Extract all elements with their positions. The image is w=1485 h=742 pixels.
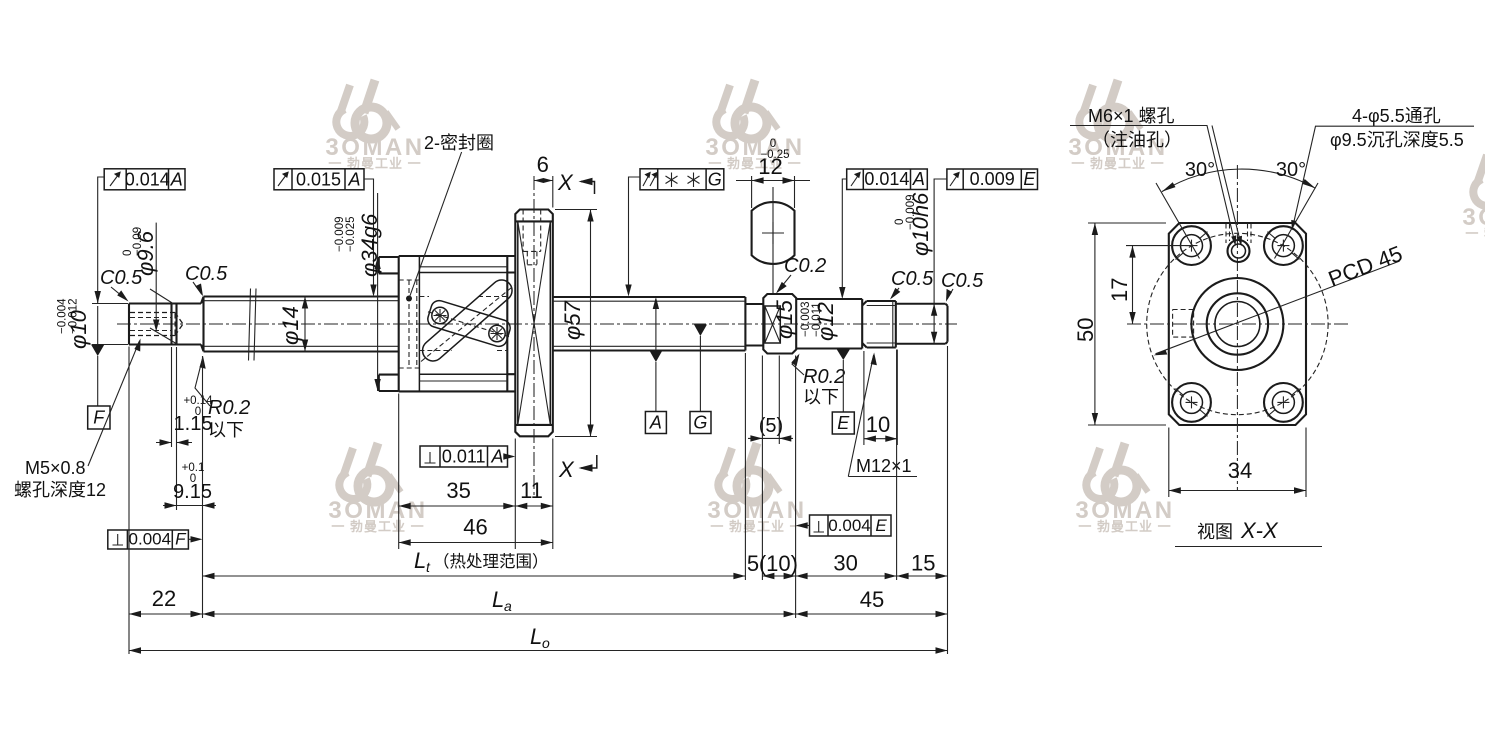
svg-text:50: 50 <box>1073 318 1098 342</box>
oval center cross <box>762 222 784 244</box>
(5) dimension upper <box>748 356 793 445</box>
nut body <box>399 256 516 391</box>
phi15 collar with wrench flats <box>763 294 796 354</box>
section mark X bottom <box>558 455 597 482</box>
flange section X cross <box>518 221 551 425</box>
svg-text:C0.2: C0.2 <box>784 255 826 277</box>
strip axis dashed <box>428 312 509 337</box>
15 dimension <box>897 551 948 580</box>
svg-text:−0.025: −0.025 <box>345 217 357 253</box>
svg-text:M12×1: M12×1 <box>856 456 912 476</box>
FCF5 runout 0.009 E <box>931 169 1038 344</box>
46 dimension <box>399 515 553 546</box>
svg-text:30: 30 <box>833 551 857 576</box>
Lo overall dimension <box>129 624 948 654</box>
svg-text:−0.011: −0.011 <box>811 302 823 337</box>
svg-text:X: X <box>557 170 574 195</box>
svg-text:视图: 视图 <box>1197 522 1233 542</box>
R0.2 note left <box>195 356 250 440</box>
perpendicularity 0.004 F frame <box>108 530 203 550</box>
svg-text:C0.5: C0.5 <box>891 268 934 290</box>
svg-text:17: 17 <box>1107 278 1132 302</box>
svg-text:2-密封圈: 2-密封圈 <box>424 133 494 153</box>
phi10 label with tolerance <box>57 298 92 349</box>
svg-text:0.015: 0.015 <box>296 170 341 190</box>
seal leader dot <box>406 296 412 302</box>
17 dimension end view <box>1107 246 1188 324</box>
svg-text:22: 22 <box>152 586 176 611</box>
svg-text:−0.25: −0.25 <box>760 149 789 161</box>
M12 thread <box>862 301 896 348</box>
section mark X top <box>557 170 595 195</box>
FCF2 runout 0.015 A <box>274 169 377 297</box>
main drawing layer <box>117 176 957 497</box>
svg-text:X-X: X-X <box>1240 518 1279 543</box>
50 dimension end view <box>1073 223 1166 425</box>
tube clamp strip <box>426 299 512 349</box>
M5 tapped hole dashed <box>130 313 183 336</box>
svg-text:30°: 30° <box>1276 159 1306 181</box>
svg-text:φ15: φ15 <box>772 299 797 339</box>
nut left seal lips <box>379 257 399 391</box>
svg-text:（热处理范围）: （热处理范围） <box>433 552 549 571</box>
return tube stadium <box>418 276 516 366</box>
left journal phi10 <box>129 304 201 345</box>
svg-text:35: 35 <box>446 478 470 503</box>
hidden notch rectangle <box>1173 310 1194 338</box>
end view: M6x1 note <box>1070 106 1242 246</box>
Lt heat-treat range dimension <box>203 548 746 579</box>
svg-text:φ14: φ14 <box>278 306 303 345</box>
La dimension <box>203 587 796 617</box>
phi34g6 label with tolerance <box>334 193 382 391</box>
end view layer <box>1127 165 1349 490</box>
svg-text:R0.2: R0.2 <box>803 366 845 388</box>
svg-text:L: L <box>530 624 542 649</box>
svg-text:A: A <box>912 169 925 189</box>
end view: 4-phi5.5 counterbore note <box>1291 106 1474 230</box>
svg-text:46: 46 <box>463 515 487 540</box>
bore inner circle <box>1215 302 1260 347</box>
collar flats box with X <box>765 306 781 343</box>
svg-text:G: G <box>708 170 722 190</box>
view X-X title <box>1175 518 1322 547</box>
screw thread root lines <box>204 301 399 347</box>
svg-text:45: 45 <box>860 587 884 612</box>
corner hole bottom-right <box>1264 383 1303 422</box>
perpendicularity 0.011 A frame <box>420 446 515 467</box>
svg-text:0.004: 0.004 <box>828 516 871 535</box>
phi12 section <box>796 299 862 349</box>
30 degree construction lines <box>1156 183 1318 259</box>
45 dimension <box>796 587 948 617</box>
6 dimension at flange <box>534 152 553 208</box>
svg-text:螺孔深度12: 螺孔深度12 <box>14 480 106 500</box>
FCF1 runout 0.014 A <box>92 169 185 345</box>
svg-text:M5×0.8: M5×0.8 <box>25 458 86 478</box>
svg-text:A: A <box>347 170 360 190</box>
10 dimension (thread length) <box>864 350 897 446</box>
M12x1 thread note <box>848 353 917 477</box>
shaft centerline <box>117 323 957 325</box>
svg-text:E: E <box>1023 169 1036 189</box>
phi9.6 label with tolerance <box>122 223 177 344</box>
wrench flats detail view (oval) <box>752 202 795 264</box>
svg-text:15: 15 <box>911 551 935 576</box>
flange M6 oil hole dashed <box>523 210 541 265</box>
FCF3 total runout ** G <box>625 169 724 297</box>
30 degree arc with arrows <box>1162 169 1316 192</box>
svg-text:以下: 以下 <box>208 420 244 440</box>
svg-text:1.15: 1.15 <box>174 413 213 435</box>
svg-text:G: G <box>693 413 707 433</box>
svg-text:F: F <box>93 408 105 428</box>
12 across-flats dimension <box>736 138 810 208</box>
flange disc outline <box>515 210 553 437</box>
svg-text:φ9.5沉孔深度5.5: φ9.5沉孔深度5.5 <box>1330 130 1464 150</box>
svg-text:−0.009: −0.009 <box>905 195 917 231</box>
datum G mid-shaft <box>690 325 711 434</box>
svg-text:o: o <box>542 635 550 651</box>
svg-text:0.009: 0.009 <box>970 169 1015 189</box>
nut right neck lips <box>507 273 515 375</box>
datum E triangle and box <box>832 349 854 434</box>
spigot circle <box>1191 278 1283 370</box>
R0.2 note right <box>791 354 845 408</box>
M6 oil hole top center <box>1228 240 1250 262</box>
relief groove phi9.6 double lines <box>172 304 177 345</box>
tube hidden axis dashed <box>421 286 514 362</box>
phi57 dimension <box>555 210 597 437</box>
screw right of flange <box>553 297 746 351</box>
svg-text:0: 0 <box>195 406 201 418</box>
svg-text:6: 6 <box>537 152 549 177</box>
svg-text:R0.2: R0.2 <box>208 397 250 419</box>
section plane chain line <box>533 176 535 497</box>
nut cavity <box>419 273 507 375</box>
svg-text:0.014: 0.014 <box>864 169 909 189</box>
svg-text:34: 34 <box>1228 458 1252 483</box>
perpendicularity 0.004 E frame <box>796 515 891 536</box>
svg-text:4-φ5.5通孔: 4-φ5.5通孔 <box>1352 106 1441 126</box>
flange rim lines <box>515 221 553 425</box>
34 dimension end view <box>1169 428 1306 498</box>
svg-text:−0.09: −0.09 <box>132 227 144 256</box>
svg-text:L: L <box>492 587 504 612</box>
screw thread root lines right <box>553 301 746 346</box>
corner hole top-right <box>1264 226 1303 265</box>
svg-text:F: F <box>175 530 187 549</box>
end view centerlines <box>1127 323 1349 325</box>
clamp screw 1 <box>432 307 448 323</box>
svg-text:11: 11 <box>520 478 543 503</box>
1.15 dimension <box>156 347 213 510</box>
5 and (10) dimensions <box>747 551 798 579</box>
phi10h6 journal <box>896 304 948 344</box>
svg-text:X: X <box>558 457 575 482</box>
oval centerline down to collar <box>772 187 774 293</box>
2-seal ring note <box>409 133 494 299</box>
cavity chamfer thin lines <box>419 267 507 381</box>
nut inner band line <box>418 256 420 391</box>
svg-text:C0.5: C0.5 <box>941 270 984 292</box>
M5x0.8 thread note <box>14 339 141 501</box>
svg-text:10: 10 <box>866 412 890 437</box>
svg-text:−0.012: −0.012 <box>68 299 80 335</box>
svg-text:E: E <box>837 413 850 433</box>
datum A mid-shaft <box>645 297 666 434</box>
svg-text:a: a <box>504 598 512 614</box>
svg-text:A: A <box>490 447 503 467</box>
corner hole top-left <box>1172 226 1211 265</box>
PCD 45 label and leader <box>1153 241 1405 356</box>
svg-text:C0.5: C0.5 <box>185 263 228 285</box>
svg-text:M6×1 螺孔: M6×1 螺孔 <box>1088 106 1175 126</box>
svg-text:A: A <box>649 413 662 433</box>
undercut neck <box>745 304 763 346</box>
svg-text:5: 5 <box>747 551 759 576</box>
phi12 label with tolerance <box>800 302 838 342</box>
seal dashed <box>399 280 420 368</box>
svg-text:0: 0 <box>190 473 196 485</box>
break marks <box>249 289 257 361</box>
bottom dim row extension lines <box>745 346 947 654</box>
annotation layer <box>14 106 1474 654</box>
FCF4 runout 0.014 A right <box>839 169 927 299</box>
hidden screw outline inside nut (dashed) <box>419 297 507 351</box>
svg-text:0.011: 0.011 <box>442 447 486 467</box>
svg-text:E: E <box>875 516 887 535</box>
svg-text:0.014: 0.014 <box>125 170 170 190</box>
svg-text:以下: 以下 <box>803 387 839 407</box>
30 dimension <box>796 551 897 580</box>
phi10h6 label with tolerance <box>894 192 933 256</box>
svg-text:0.004: 0.004 <box>129 530 172 549</box>
flange inner verticals <box>518 221 551 425</box>
datum F triangle and box <box>88 345 110 430</box>
35 and 11 dimension row <box>399 394 553 550</box>
corner hole bottom-left <box>1172 383 1211 422</box>
shoulder chamfer to phi14 <box>201 297 204 352</box>
phi14 dimension <box>278 297 308 352</box>
svg-text:（注油孔）: （注油孔） <box>1092 130 1182 150</box>
svg-text:30°: 30° <box>1185 159 1215 181</box>
22 dimension <box>129 347 203 655</box>
bore outer circle <box>1207 293 1268 354</box>
flange square with chamfered corners <box>1169 223 1306 425</box>
svg-text:A: A <box>170 170 183 190</box>
PCD 45 dashed circle <box>1147 233 1328 414</box>
9.15 dimension <box>163 356 216 618</box>
svg-text:L: L <box>414 548 426 573</box>
svg-text:φ57: φ57 <box>560 300 585 340</box>
clamp screw 2 <box>489 325 505 341</box>
svg-text:(10): (10) <box>759 551 798 576</box>
phi14 screw shaft <box>204 297 399 352</box>
